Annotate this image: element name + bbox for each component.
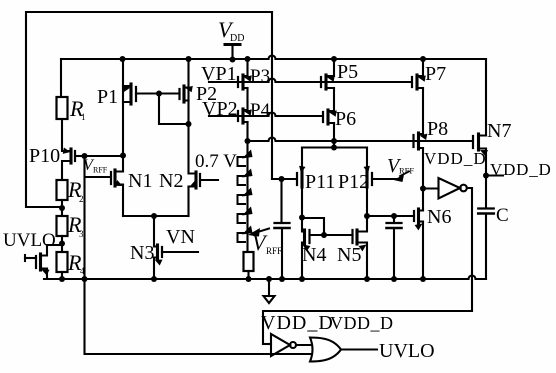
svg-text:2: 2 [79,194,84,204]
svg-text:C: C [496,205,509,226]
resistor R4 [57,252,68,272]
wire R4 to ground rail [61,272,63,279]
wire P11 gate lead [272,178,297,180]
svg-text:1: 1 [81,112,86,122]
diode-connected mos D1 [238,157,246,166]
svg-text:N6: N6 [427,206,451,228]
wire N5 drain to N6 gate [367,215,414,217]
svg-text:N1: N1 [128,170,152,192]
transistor N3 [156,245,159,259]
wire R1 to P10 [62,119,71,151]
svg-text:P10: P10 [29,145,60,167]
wire P3 trunk [246,59,248,76]
wire P7 trunk [422,59,424,76]
diode-connected mos D5 [238,233,246,242]
transistor N2 [194,172,197,188]
wire N4 N5 gate [310,234,353,236]
svg-text:VDD_D: VDD_D [424,149,487,168]
transistor P8 [417,133,420,149]
wire N7 source VDD_D node [485,149,487,208]
wire diode chain trunk [246,141,248,252]
transistor P4 [241,109,244,123]
svg-text:VDD_D: VDD_D [261,312,334,334]
wire chain to rail [247,271,249,279]
transistor P6 [326,110,329,124]
wire inverter U2 out [296,344,312,346]
transistor P3 [241,75,244,89]
svg-text:P3: P3 [250,66,270,87]
svg-text:N4: N4 [302,244,326,266]
diode-connected mos D2 [238,176,246,185]
svg-text:P7: P7 [425,63,446,85]
svg-text:N5: N5 [337,244,361,266]
svg-text:N3: N3 [130,242,154,264]
wire delay feedback [263,311,472,344]
inverter U1 [439,178,461,199]
svg-text:RFF: RFF [93,166,108,175]
transistor N4 [303,230,306,244]
wire rail to R1 [60,59,62,97]
svg-text:UVLO: UVLO [379,340,435,362]
transistor Q1 hysteresis switch [24,255,26,261]
transistor P1 [129,84,132,104]
transistor P10 [69,149,72,163]
transistor N7 [477,134,480,150]
transistor N5 [355,230,358,244]
wire P1-P2 gate net [159,94,189,125]
wire P5 trunk [333,59,335,76]
transistor P2 [182,86,185,102]
resistor R2 [57,180,68,200]
wire VP2 gate line [209,113,323,116]
transistor P11 [300,171,303,187]
diode-connected mos D3 [238,195,246,204]
svg-text:N7: N7 [487,120,511,142]
wire mirror source rail [333,141,335,148]
wire N3 source to rail [153,258,155,279]
diode-connected mos D4 [238,214,246,223]
svg-text:VP2: VP2 [202,98,238,120]
svg-text:RFF: RFF [399,166,414,176]
transistor P5 [324,75,327,89]
wire VRFF net down to OR gate input [85,156,314,354]
wire P4 drain trunk [246,122,248,141]
wire R3 to R4 node [61,236,63,252]
svg-text:3: 3 [79,229,84,239]
wire feedback box top-left [26,12,272,207]
wire P6 drain trunk [333,123,335,141]
resistor R1 [57,97,68,119]
node ground rail [44,276,486,280]
node VDD rail [61,56,486,60]
transistor N1 [113,170,116,186]
wire R2 to R3 node [61,200,63,216]
wire tail to N3 [153,216,155,246]
wire inverter output down [467,188,472,311]
svg-text:VP1: VP1 [201,63,237,85]
wire N2 source trunk [187,187,189,216]
resistor R3 [57,216,68,236]
svg-text:P8: P8 [427,118,448,140]
capacitor C1 at P11 gate [280,179,282,223]
wire P10 gate to comparator node [85,155,124,157]
wire VP1 gate line [209,79,412,83]
svg-text:DD: DD [230,33,244,44]
wire P4 drain to P8/N7 gates [248,138,474,141]
svg-text:P11: P11 [305,171,335,193]
transistor P7 [415,75,418,89]
wire N1 source trunk [122,185,124,216]
svg-text:P4: P4 [250,100,271,121]
resistor R5 chain [244,252,254,271]
wire N6 source to rail [422,222,424,279]
capacitor C2 [393,216,395,223]
svg-text:P12: P12 [338,171,369,193]
or-gate U3 [310,338,341,362]
svg-text:P6: P6 [335,108,356,130]
wire comparator tail [123,215,189,217]
svg-text:P1: P1 [97,86,118,108]
wire P8 drain trunk [422,149,424,210]
wire N1 gate [85,176,111,178]
wire UVLO output [341,348,377,350]
svg-text:VDD_D: VDD_D [490,160,552,179]
svg-text:RFF: RFF [266,246,282,256]
inverter U2 [263,343,271,345]
svg-text:VN: VN [166,226,195,248]
svg-text:0.7 V: 0.7 V [195,151,237,172]
transistor P12 [365,171,368,187]
ground [266,276,272,282]
svg-text:N2: N2 [159,170,183,192]
svg-text:P5: P5 [337,61,358,83]
wire P1 trunk [122,59,124,171]
wire P2 trunk [187,59,189,172]
wire vertical feedback to P11 gate [271,12,273,179]
svg-text:VDD_D: VDD_D [330,313,394,333]
wire P11 drain to N4/N5 gates [302,218,324,235]
capacitor C [478,207,494,209]
wire inverter input [423,187,439,189]
wire C to rail [485,214,487,280]
transistor N6 [417,209,420,223]
wire N7 drain trunk [485,59,487,135]
